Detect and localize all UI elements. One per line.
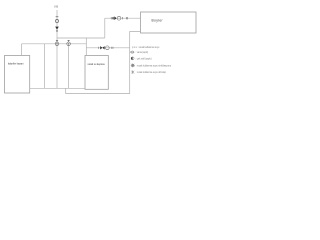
svg-text:: sıcak kullanma suyu dönüşü: : sıcak kullanma suyu dönüşü bbox=[136, 72, 167, 74]
svg-text:Boyler: Boyler bbox=[152, 19, 164, 23]
svg-text:sıcak su deposu: sıcak su deposu bbox=[88, 63, 106, 66]
svg-text:: çek valf (yaylı): : çek valf (yaylı) bbox=[136, 58, 152, 60]
svg-text:kalorifer kazanı: kalorifer kazanı bbox=[8, 62, 24, 65]
svg-text:: vana (açık): : vana (açık) bbox=[136, 52, 149, 54]
svg-text:: sıcak kullanma suyu sirkülas: : sıcak kullanma suyu sirkülasyonu bbox=[136, 64, 172, 67]
svg-text:ç.k.s : sıcak kullanma suyu: ç.k.s : sıcak kullanma suyu bbox=[132, 47, 160, 49]
svg-text:V.B: V.B bbox=[54, 5, 58, 9]
